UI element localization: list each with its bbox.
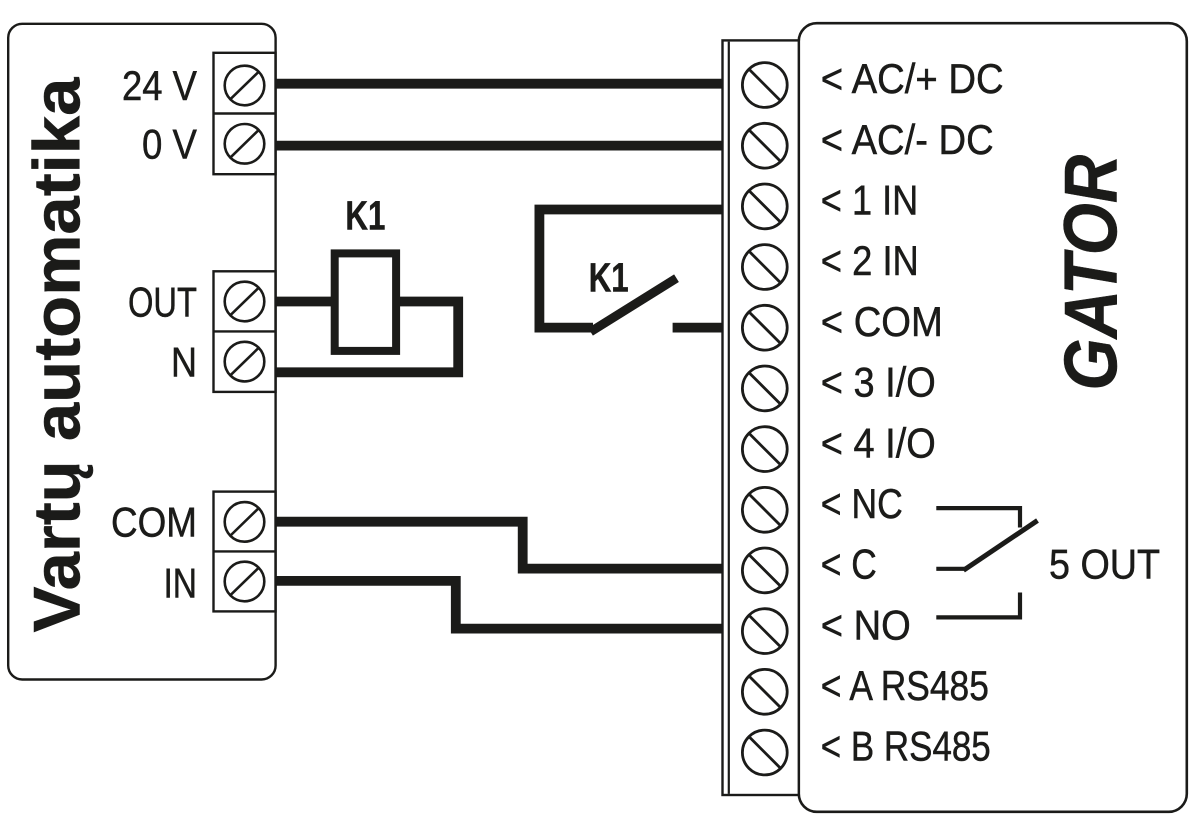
svg-text:< NC: < NC — [821, 481, 903, 527]
svg-text:K1: K1 — [345, 192, 385, 238]
svg-text:< B RS485: < B RS485 — [821, 724, 991, 771]
svg-text:< AC/- DC: < AC/- DC — [821, 116, 994, 163]
svg-text:< 4 I/O: < 4 I/O — [821, 421, 936, 467]
svg-text:< AC/+ DC: < AC/+ DC — [821, 56, 1004, 103]
svg-text:IN: IN — [164, 561, 198, 607]
svg-text:< 2 IN: < 2 IN — [821, 238, 919, 285]
svg-text:5 OUT: 5 OUT — [1049, 542, 1160, 588]
svg-text:< 3 I/O: < 3 I/O — [821, 360, 936, 406]
svg-text:< COM: < COM — [821, 298, 943, 345]
svg-text:GATOR: GATOR — [1050, 155, 1133, 391]
svg-text:Vartų automatika: Vartų automatika — [21, 77, 94, 632]
svg-text:< A RS485: < A RS485 — [821, 663, 989, 710]
svg-text:OUT: OUT — [128, 279, 197, 326]
svg-text:24 V: 24 V — [122, 63, 198, 110]
svg-text:0 V: 0 V — [142, 121, 198, 168]
svg-text:< NO: < NO — [821, 603, 911, 649]
svg-text:COM: COM — [111, 499, 197, 546]
svg-text:N: N — [171, 340, 197, 386]
svg-text:< C: < C — [821, 542, 877, 589]
svg-text:< 1 IN: < 1 IN — [821, 178, 918, 224]
svg-text:K1: K1 — [589, 254, 629, 300]
